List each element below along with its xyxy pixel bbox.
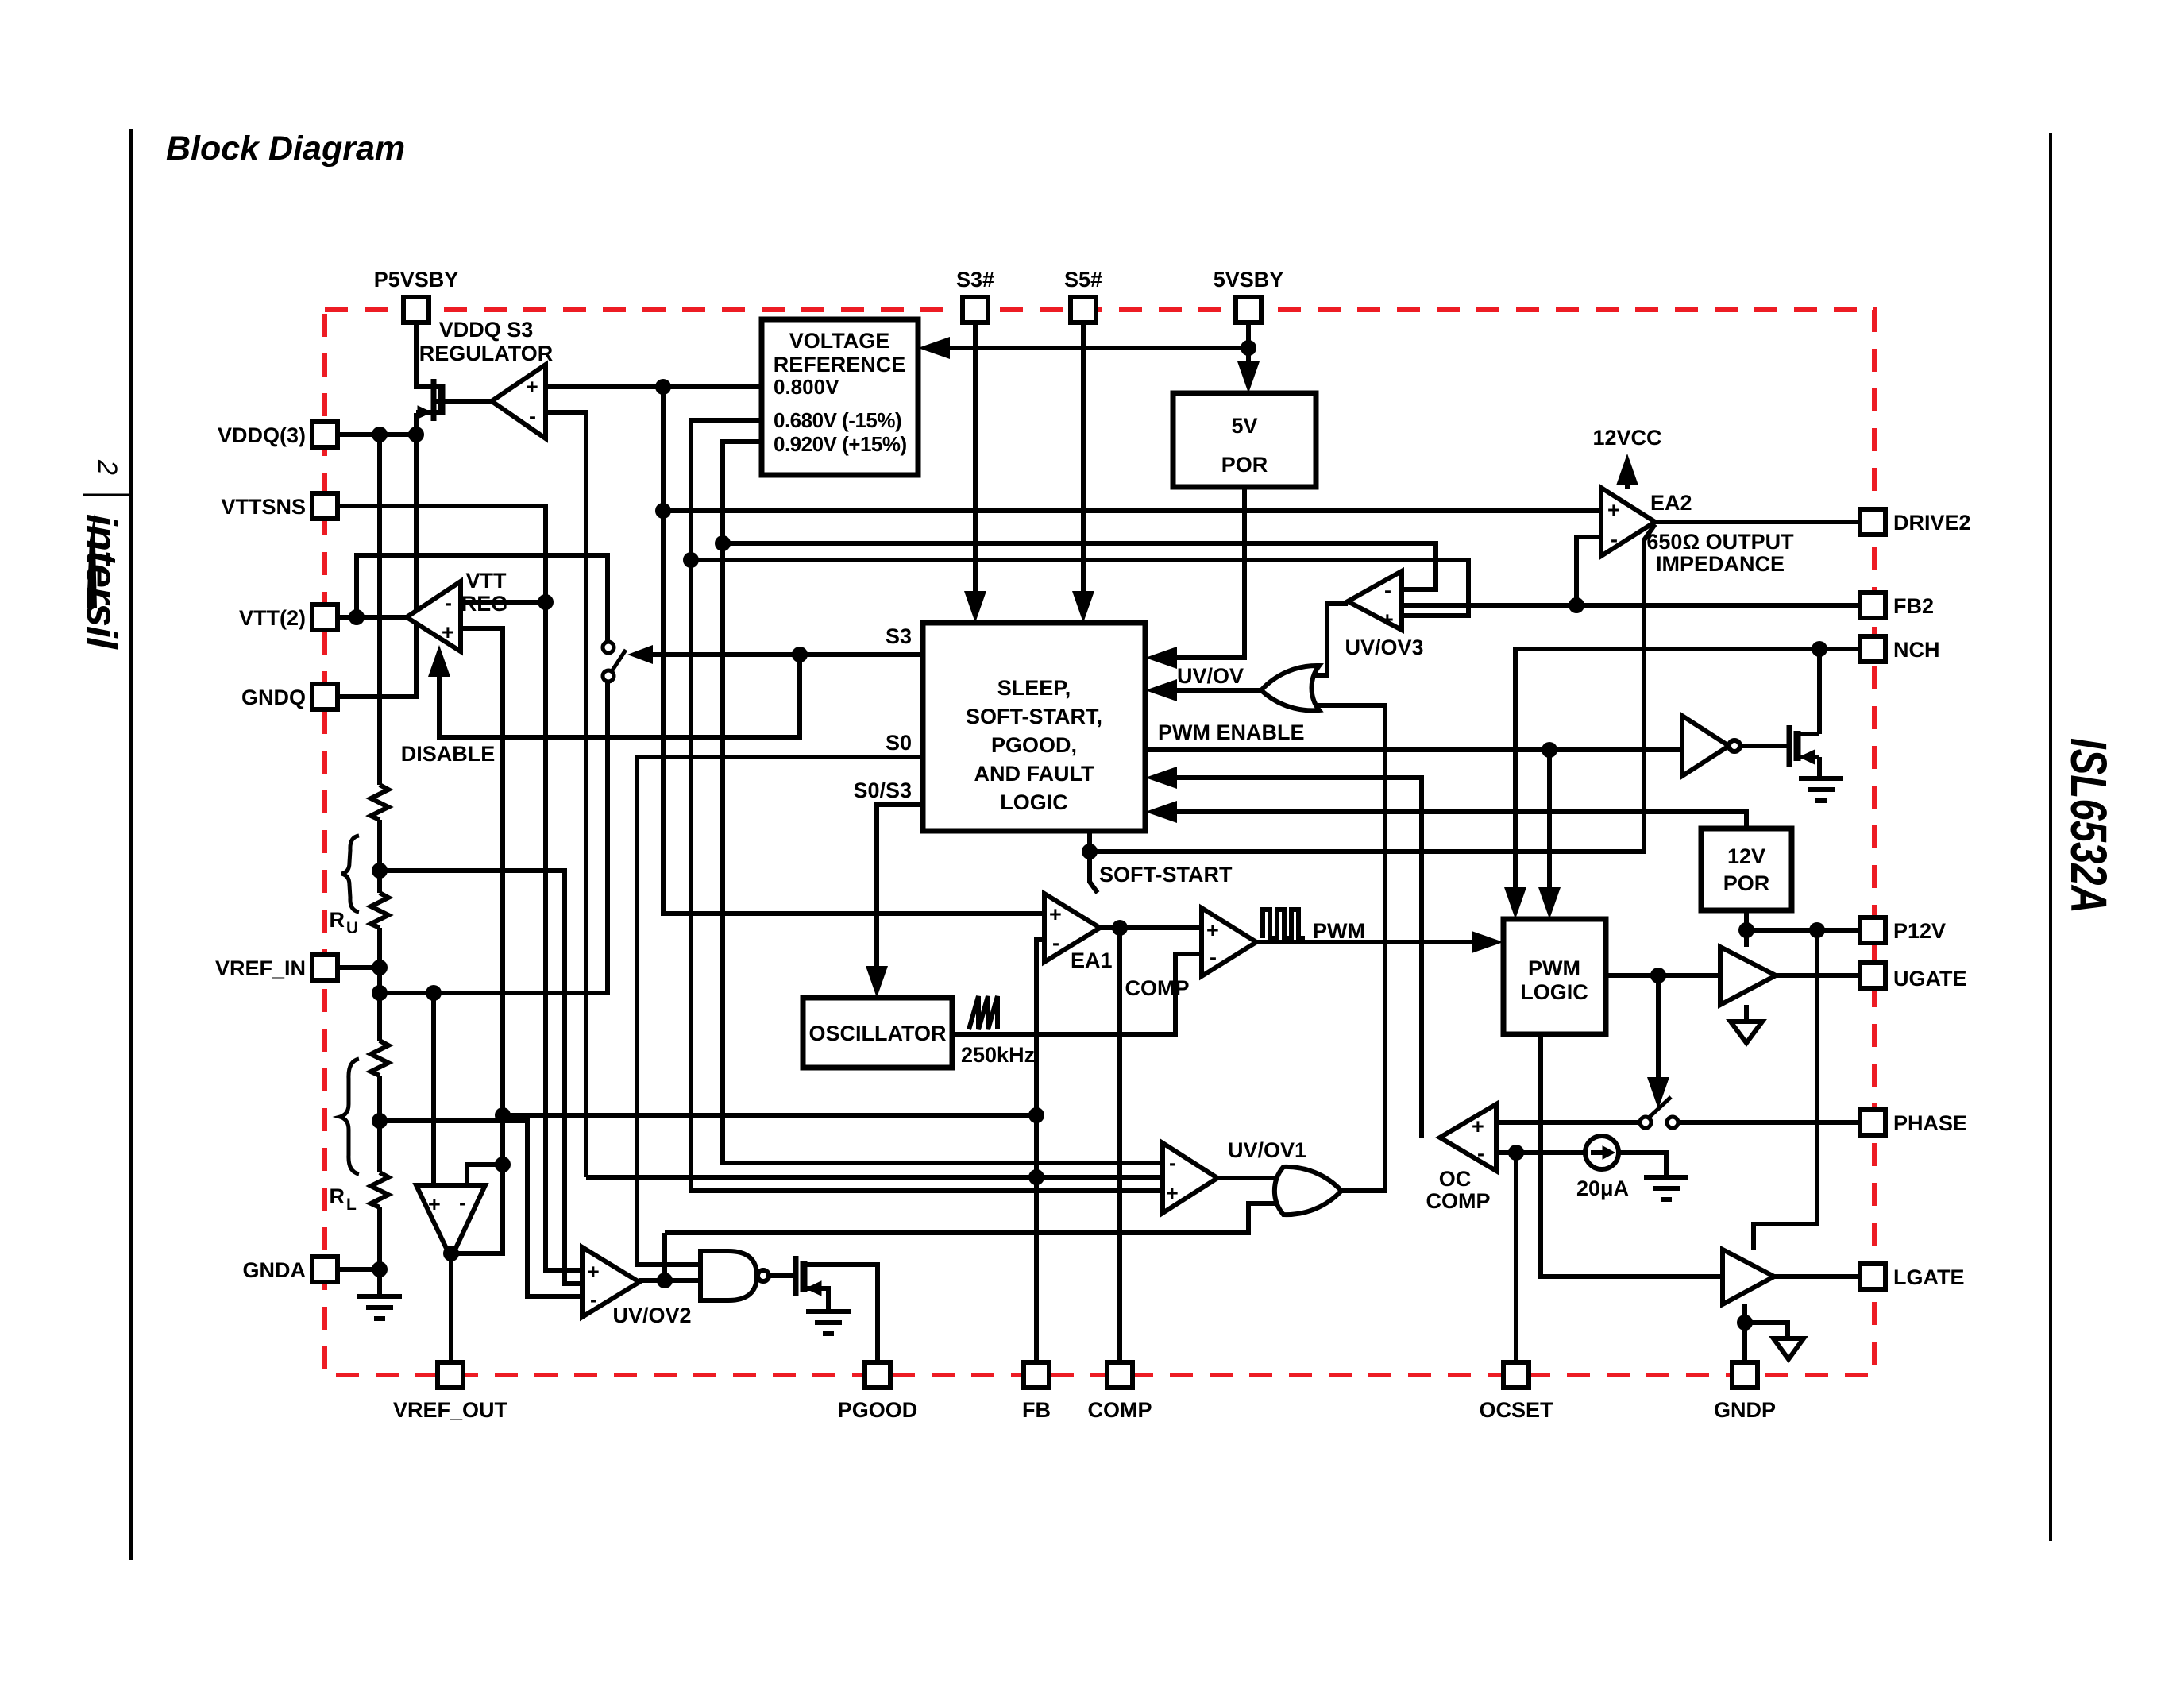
svg-text:UGATE: UGATE [1893,967,1967,991]
wire VTTSNS to UV/OV2 plus [338,506,582,1270]
comparator OC COMP [1440,1104,1496,1171]
voltage reference box [762,319,918,475]
pin NCH [1860,636,1885,662]
arrow into S3 switch [627,645,653,664]
svg-text:S3#: S3# [956,268,994,292]
pin PGOOD [865,1362,890,1388]
svg-text:PGOOD,: PGOOD, [991,733,1077,757]
svg-text:S5#: S5# [1064,268,1102,292]
wire chain bottom to GNDA node [377,1207,382,1295]
wire 0.800V rail to reg amp plus [546,384,762,389]
wire OR1 output to sleep block [1158,688,1260,693]
svg-text:UV/OV1: UV/OV1 [1228,1138,1306,1162]
wire PWM enable branch to PWM logic [1547,750,1552,907]
svg-text:+: + [1607,498,1620,522]
current source 20uA [1585,1136,1619,1169]
comparator UV/OV3 [1348,571,1402,630]
wire COMP pin trunk [1117,928,1122,1362]
op-amp EA1 [1044,894,1100,962]
ground at PGOOD mosfet [806,1311,851,1334]
pin LGATE [1860,1264,1885,1289]
svg-text:250kHz: 250kHz [961,1043,1035,1067]
wire VTT REG plus stub to x633 trunk [461,628,503,1165]
wire DISABLE route [439,655,800,737]
wire OC COMP plus to PHASE [1496,1120,1640,1125]
svg-text:SLEEP,: SLEEP, [997,676,1071,700]
svg-text:Block Diagram: Block Diagram [166,129,405,168]
svg-text:PHASE: PHASE [1893,1111,1967,1135]
arrow PWM into PWM LOGIC [1472,931,1503,953]
OR gate UV/OV (mirrored, output left) [1261,666,1319,710]
svg-text:OSCILLATOR: OSCILLATOR [809,1022,947,1045]
svg-text:ISL6532A: ISL6532A [2060,738,2117,914]
svg-text:IMPEDANCE: IMPEDANCE [1656,552,1785,576]
svg-text:U: U [346,919,358,937]
wire EA1 out to COMP comparator [1100,925,1202,930]
wire inverter to mosfet gate [1740,744,1787,748]
PWM squarewave symbol [1263,910,1305,938]
pin S5# [1071,297,1096,323]
wire UV/OV1 out to OR2 [1217,1176,1302,1180]
comparator COMP [1202,908,1256,976]
svg-text:VOLTAGE: VOLTAGE [789,329,890,353]
svg-text:S0/S3: S0/S3 [853,778,912,802]
wire PWM ENABLE [1145,747,1682,752]
wire 0.800V trunk down [663,387,1044,914]
svg-text:COMP: COMP [1125,976,1190,1000]
wire UV/OV1 mid feed [586,1175,1163,1180]
svg-text:OC: OC [1439,1167,1472,1191]
pin VREF_OUT [438,1362,463,1388]
wire OR1 bottom input from UV1-OR [1301,705,1385,1191]
pin COMP [1107,1362,1133,1388]
svg-text:+: + [1166,1181,1179,1205]
svg-text:-: - [1052,931,1059,955]
svg-text:650Ω OUTPUT: 650Ω OUTPUT [1646,530,1794,554]
pin VTTSNS [312,493,338,519]
svg-text:PGOOD: PGOOD [838,1398,918,1422]
wire buffer feedback loop [451,1165,503,1253]
buffer VREF_OUT [416,1185,485,1258]
arrow S5# into sleep [1072,591,1094,623]
wire SOFT-START rail to EA2 output [1090,524,1655,852]
pin P5VSBY [403,297,429,323]
wire NCH line [1515,649,1859,907]
wire 5V POR to UV/OV arrow [1158,487,1244,658]
op-amp EA2 [1601,488,1655,556]
svg-text:PWM: PWM [1313,919,1365,943]
svg-text:FB2: FB2 [1893,594,1934,618]
svg-text:GNDP: GNDP [1714,1398,1776,1422]
wire buffer output to VREF_OUT [449,1258,453,1362]
arrow 12VCC up [1616,454,1638,485]
svg-text:-: - [1210,945,1217,969]
pin squares [312,297,1885,1388]
resistor RL upper half [371,1041,388,1076]
pin P12V [1860,917,1885,943]
arrow S3# into sleep [964,591,986,623]
wire PWM comparator out to PWM LOGIC [1256,940,1491,944]
wire lower tap y1411 to UV/OV2 minus [380,1121,582,1296]
svg-text:OCSET: OCSET [1479,1398,1553,1422]
wire EA1 minus to FB trunk [1036,940,1044,1362]
wire VTT(2) pin to VTT REG [338,615,407,620]
op-amp VDDQ S3 regulator [492,365,546,438]
svg-text:POR: POR [1221,453,1268,477]
svg-text:-: - [1477,1141,1484,1165]
ground at NCH mosfet [1799,778,1843,801]
svg-text:P5VSBY: P5VSBY [374,268,459,292]
svg-text:GNDA: GNDA [243,1258,307,1282]
wire 5VSBY to voltage reference [931,346,1248,350]
svg-text:-: - [1611,527,1618,551]
svg-text:-: - [590,1288,597,1311]
wire 12VCC stub [1625,467,1630,489]
wire 5VSBY drop [1246,323,1251,383]
svg-text:2: 2 [92,459,122,475]
wire PWM LOGIC bottom to LGATE driver [1541,1034,1723,1277]
driver UGATE [1720,947,1776,1005]
inverter [1682,716,1729,776]
wire LGATE driver ground to GNDP [1742,1304,1747,1362]
svg-text:AND FAULT: AND FAULT [974,762,1094,786]
wire 0.680V branch above switch [691,420,1163,1191]
pin S3# [963,297,988,323]
svg-text:REGULATOR: REGULATOR [419,342,554,365]
svg-text:0.800V: 0.800V [774,375,839,399]
arrow DISABLE up into VTT REG [428,645,450,677]
OR gate UV/OV1 [1275,1167,1341,1215]
wire reg amp minus to UV/OV1 plus rail [546,412,586,1177]
svg-text:UV/OV2: UV/OV2 [612,1304,691,1327]
wire FB2 line [1402,603,1859,608]
arrow NCH into PWM LOGIC [1504,887,1526,919]
oscillator box [803,998,952,1068]
svg-text:L: L [346,1196,357,1214]
wire 0.920V trunk [723,442,1163,1163]
wire 0.800V to EA2 plus [663,508,1601,513]
svg-text:DISABLE: DISABLE [401,742,496,766]
arrow into oscillator [866,966,888,998]
pin VREF_IN [312,955,338,980]
brace RU [341,836,359,912]
wire UGATE driver ground [1744,1005,1749,1020]
svg-text:UV/OV3: UV/OV3 [1345,635,1423,659]
svg-text:S0: S0 [886,731,912,755]
wire oscillator output to COMP minus [952,954,1202,1034]
svg-text:5V: 5V [1231,414,1257,438]
PWM logic box [1503,919,1606,1034]
wire OR2 output riser [1342,1188,1385,1193]
sleep soft-start pgood fault logic box [923,623,1145,831]
svg-text:COMP: COMP [1088,1398,1152,1422]
wire current source to ground [1619,1153,1666,1176]
intersil logo [78,514,125,650]
comparator UV/OV1 [1163,1143,1217,1213]
wire PGOOD mosfet source to ground [805,1288,828,1310]
pin DRIVE2 [1860,509,1885,535]
wire chain [377,1076,382,1172]
svg-text:-: - [459,1191,466,1215]
NAND gate [700,1251,757,1300]
wire PWM LOGIC to UGATE driver [1606,973,1720,978]
wire OCSET drop [1514,1153,1518,1362]
IC boundary red dashed [325,310,1874,1375]
pin FB2 [1860,593,1885,618]
arrow above PHASE switch [1647,1077,1669,1109]
wire UGATE driver output [1776,973,1859,978]
12V POR box [1701,829,1792,910]
resistor RL lower half [371,1172,388,1207]
wire window rail to OR2 bottom input [665,1203,1302,1233]
svg-text:R: R [330,1184,345,1208]
pin 5VSBY [1236,297,1261,323]
wire UV/OV3 output to OR1 top input [1301,604,1348,675]
wire OC COMP output to sleep [1158,778,1422,1138]
svg-text:LOGIC: LOGIC [1000,790,1068,814]
svg-text:0.920V (+15%): 0.920V (+15%) [774,432,907,456]
svg-text:20μA: 20μA [1576,1176,1629,1200]
arrow into 5V POR [1237,361,1260,393]
pin VDDQ(3) [312,422,338,447]
svg-text:PWM ENABLE: PWM ENABLE [1158,720,1305,744]
wire buffer plus feed [431,993,436,1185]
wire UV/OV2 out riser to rail [662,1233,667,1280]
wire GNDA pin [338,1267,380,1272]
svg-text:SOFT-START,: SOFT-START, [966,705,1102,728]
svg-text:UV/OV: UV/OV [1177,664,1244,688]
wire MOSFET source down to VDDQ(3) node [414,413,419,435]
wire VTT(2) riser to long rail [357,555,608,641]
wire 12V POR top to sleep [1158,812,1746,829]
resistor RU upper half [371,785,388,820]
wire VREF_IN pin [338,965,380,970]
wire upper tap y1096 to x711 [380,871,582,1284]
brace RL [340,1059,359,1174]
pin FB [1024,1362,1049,1388]
wire PWM logic branch to phase switch [1656,975,1661,1087]
svg-text:PWM: PWM [1528,956,1580,980]
svg-text:-: - [1169,1151,1176,1175]
wire S0 stub down to window rail [637,757,923,1265]
switch S3 disable [603,642,626,682]
arrow into voltage reference [918,337,950,359]
svg-text:VDDQ S3: VDDQ S3 [439,318,534,342]
ground at divider bottom [357,1296,402,1319]
svg-text:VDDQ(3): VDDQ(3) [218,423,306,447]
svg-text:EA1: EA1 [1071,948,1113,972]
wire NAND output to mosfet gate [769,1273,794,1278]
svg-text:VTTSNS: VTTSNS [221,495,306,519]
wire SOFT-START stub [1090,831,1098,893]
svg-text:VREF_IN: VREF_IN [215,956,306,980]
wire UGATE driver power [1744,930,1749,947]
wire S3# drop [973,323,978,607]
arrow UV/OV lower into sleep [1145,679,1177,701]
wire GNDQ riser [338,435,416,697]
svg-text:VREF_OUT: VREF_OUT [393,1398,508,1422]
svg-text:12VCC: 12VCC [1592,426,1661,450]
wire chain [377,820,382,893]
5V POR box [1173,393,1316,487]
plus minus marks [428,375,1620,1311]
pin PHASE [1860,1110,1885,1135]
svg-text:5VSBY: 5VSBY [1214,268,1284,292]
svg-text:+: + [428,1192,441,1216]
arrow OC into sleep [1145,767,1177,789]
wire S5# drop [1081,323,1086,607]
wire mid tap y1250 to x765 riser [380,682,608,993]
wire divider chain top [377,435,382,785]
pin VTT(2) [312,605,338,630]
wire S0/S3 stub to oscillator [877,805,923,987]
comparator UV/OV2 [582,1247,639,1317]
wire GNDP node to chassis ground [1745,1323,1788,1337]
page right rule [2049,133,2052,1541]
arrowheads [428,337,1669,1109]
wire P12V branch down to LGATE driver [1754,930,1817,1250]
pin GNDP [1732,1362,1758,1388]
mosfet Q2 NCH pulldown [1789,725,1819,767]
svg-text:GNDQ: GNDQ [241,686,306,709]
mosfet Q1 VDDQ regulator pass fet [416,379,492,421]
pin GNDA [312,1257,338,1282]
svg-text:0.680V (-15%): 0.680V (-15%) [774,408,901,432]
svg-text:+: + [587,1260,600,1284]
wire S3 stub to switch arrow [651,652,923,657]
arrow PWM-EN into PWM LOGIC [1538,887,1561,919]
wire chain to VREF_IN [377,928,382,1041]
svg-text:COMP: COMP [1426,1189,1491,1213]
op-amp VTT REG [407,581,461,651]
svg-text:-: - [445,591,452,615]
svg-text:R: R [330,908,345,932]
wire EA2 output to DRIVE2 [1655,520,1859,524]
driver LGATE [1723,1250,1774,1304]
svg-text:S3: S3 [886,624,912,648]
svg-text:POR: POR [1723,871,1770,895]
ground at 20uA source [1644,1177,1688,1199]
resistor RU lower half [371,893,388,928]
svg-text:REFERENCE: REFERENCE [774,353,906,377]
svg-text:FB: FB [1022,1398,1051,1422]
wire OC COMP minus to current source [1496,1150,1585,1155]
page left rule [129,129,133,1560]
arrow 12vpor into sleep [1145,801,1177,823]
svg-text:+: + [1381,608,1394,632]
wire 0.680V rail to UV/OV3 plus [691,560,1468,616]
svg-text:-: - [1384,578,1391,602]
svg-text:+: + [1049,902,1062,926]
svg-text:intersil: intersil [78,514,125,650]
wire FB tie line [503,1113,1036,1118]
wire UV/OV2 out to NAND [639,1278,700,1283]
pin GNDQ [312,684,338,709]
wire VTT REG minus stub [461,600,546,605]
svg-text:+: + [1206,918,1219,942]
svg-text:VTT: VTT [466,569,507,593]
svg-text:+: + [526,375,538,399]
svg-text:DRIVE2: DRIVE2 [1893,511,1971,535]
wire NCH branch to mosfet drain [1817,649,1822,734]
page number tick [83,494,131,496]
svg-text:12V: 12V [1727,844,1765,868]
svg-text:EA2: EA2 [1650,491,1692,515]
svg-text:+: + [1472,1114,1484,1138]
switch PHASE [1640,1097,1678,1128]
wire VDDQ(3) pin to nodes [338,432,416,437]
sawtooth symbol [969,996,997,1029]
svg-text:+: + [442,620,454,644]
wire PGOOD mosfet drain to PGOOD pin [805,1265,878,1362]
wire 0.920V rail to UV/OV3 minus [723,543,1436,589]
pin UGATE [1860,963,1885,988]
mosfet Q3 PGOOD open drain [796,1256,828,1296]
wire P5VSBY to MOSFET drain [416,321,435,387]
svg-text:VTT(2): VTT(2) [239,606,306,630]
svg-text:P12V: P12V [1893,919,1946,943]
svg-text:LOGIC: LOGIC [1520,980,1588,1004]
arrow UV/OV upper into sleep [1145,647,1177,669]
pin OCSET [1503,1362,1529,1388]
svg-text:-: - [529,404,536,428]
open triangle ground LGATE driver [1773,1338,1804,1359]
svg-text:NCH: NCH [1893,638,1940,662]
wire switch to PHASE pin [1678,1120,1859,1125]
svg-text:LGATE: LGATE [1893,1265,1965,1289]
wire nch mosfet source to ground [1817,757,1822,777]
page number 2 [92,459,122,475]
wire LGATE driver output [1774,1274,1859,1279]
svg-text:REG: REG [461,592,508,616]
ISL6532A side text [2060,738,2117,914]
open triangle ground UGATE driver [1731,1022,1762,1043]
wire EA2 minus drop [1576,537,1601,605]
wire P12V rail [1746,910,1859,930]
svg-text:SOFT-START: SOFT-START [1099,863,1233,886]
